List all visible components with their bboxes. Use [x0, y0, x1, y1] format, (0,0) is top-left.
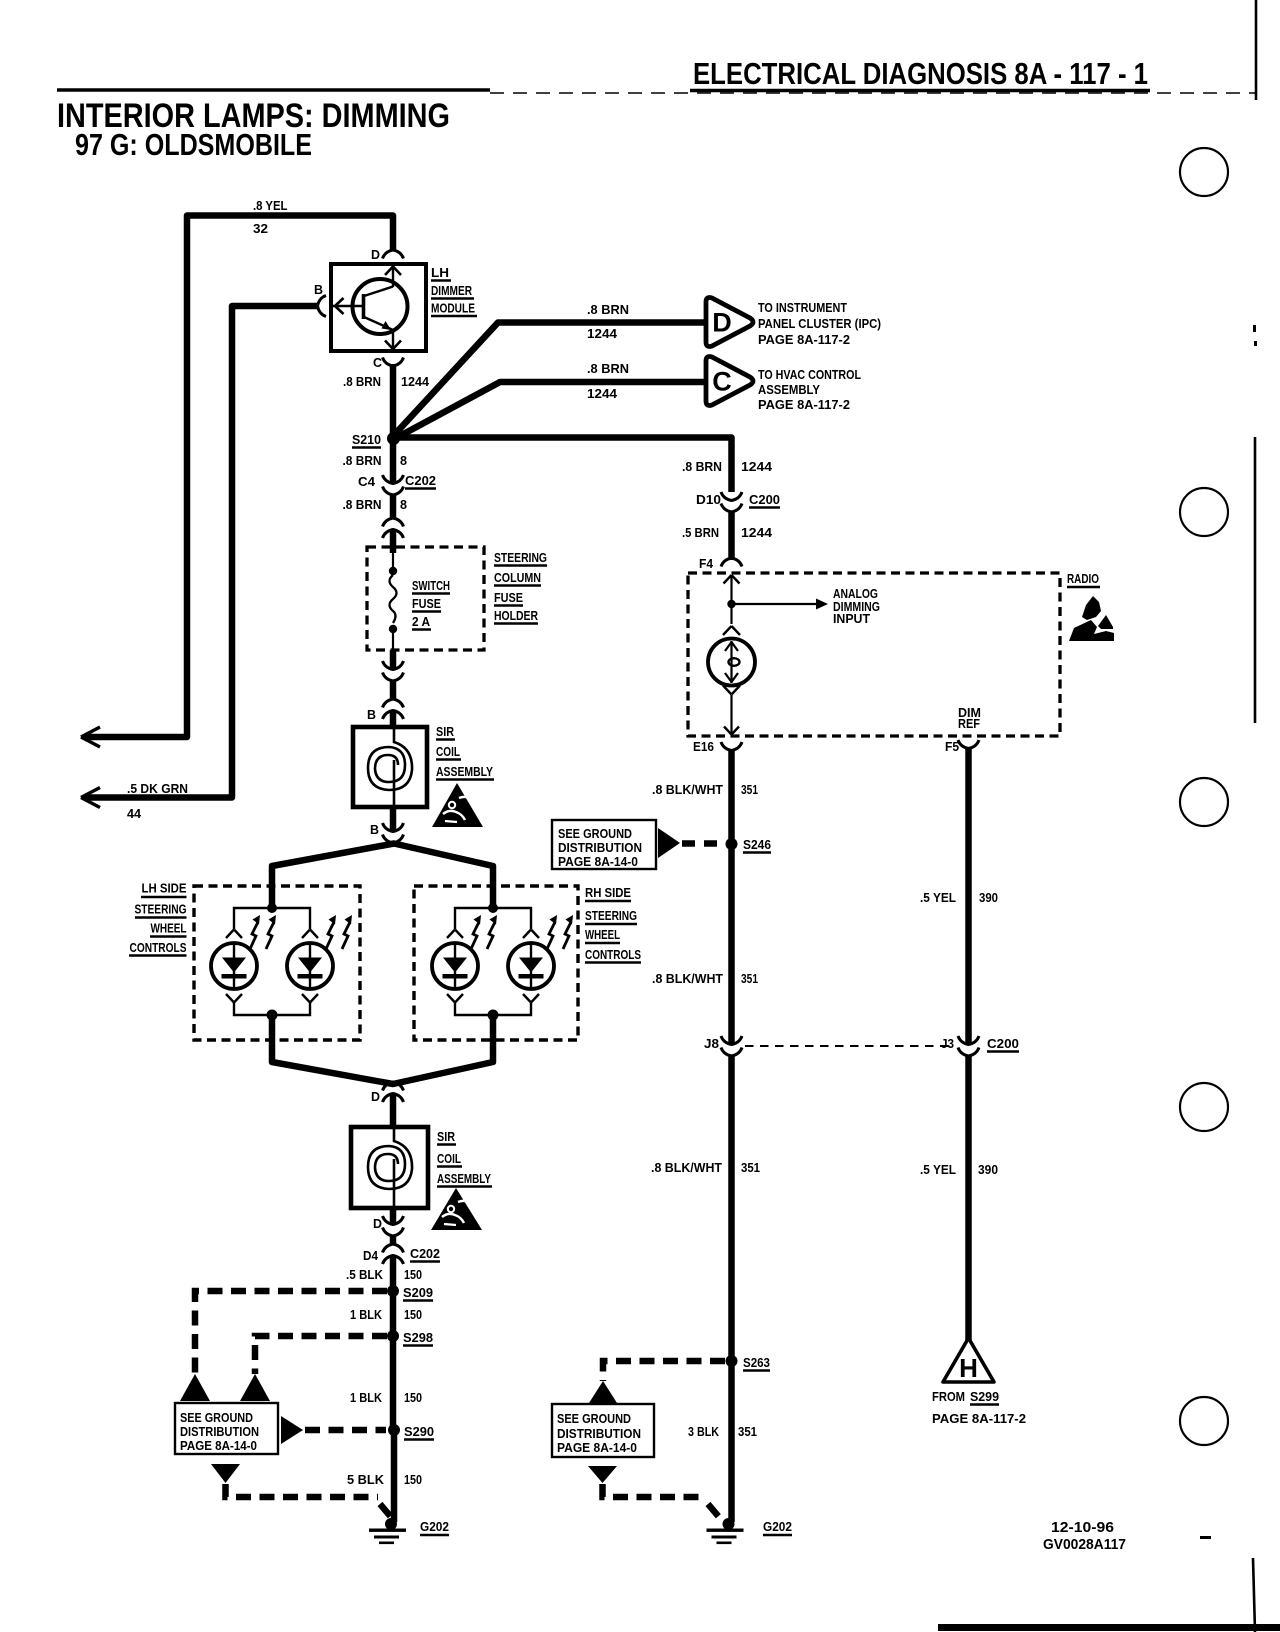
LH lamp 1 top chevron	[226, 930, 242, 939]
LH lamp 2 top chevron	[302, 930, 318, 939]
label 8 (lower)	[400, 497, 407, 512]
label .8 YEL	[253, 198, 288, 213]
RH controls top node	[488, 903, 498, 913]
svg-text:S299: S299	[970, 1389, 999, 1404]
SIR coil assembly box (upper)	[353, 727, 427, 807]
steering column fuse holder box (dashed)	[367, 547, 484, 650]
off-page connector D (to IPC)	[706, 298, 753, 347]
svg-text:D: D	[371, 1089, 380, 1104]
bottom right page edge	[938, 1536, 1280, 1631]
svg-text:S209: S209	[403, 1285, 433, 1300]
svg-text:J8: J8	[704, 1036, 719, 1051]
pin B label (SIR top)	[367, 707, 376, 722]
label .5 BRN	[682, 525, 719, 540]
label S246	[743, 837, 771, 853]
radio internal line to E16	[724, 695, 739, 735]
LH dimmer module box	[331, 264, 426, 351]
label 5 BLK	[347, 1472, 385, 1487]
wire D4 to S209 (.5 BLK 150)	[390, 1256, 397, 1291]
label RH SIDE STEERING WHEEL CONTROLS	[585, 885, 641, 963]
label 1244 (IPC wire)	[587, 326, 618, 341]
fuse holder bottom pin connector	[383, 661, 404, 681]
svg-text:TO HVAC CONTROL: TO HVAC CONTROL	[758, 368, 861, 382]
svg-text:FUSE: FUSE	[412, 596, 441, 611]
svg-text:PAGE 8A-14-0: PAGE 8A-14-0	[557, 1441, 637, 1455]
label DIM REF	[958, 705, 981, 731]
svg-text:DISTRIBUTION: DISTRIBUTION	[180, 1425, 259, 1439]
wire E16 to S246 (.8 BLK/WHT 351)	[728, 749, 735, 844]
svg-text:D: D	[712, 308, 732, 338]
LH controls bottom node	[267, 1010, 278, 1021]
wire S298 to S290 (1 BLK 150)	[390, 1336, 397, 1430]
wire J3 to H (.5 YEL 390)	[965, 1055, 972, 1340]
svg-text:S246: S246	[743, 837, 771, 852]
label 150 (3)	[404, 1390, 422, 1405]
ground G202 (right)	[707, 1518, 744, 1544]
see ground distribution box (S246)	[552, 820, 656, 869]
svg-text:3 BLK: 3 BLK	[688, 1424, 720, 1439]
label D4	[363, 1248, 379, 1263]
label FROM S299	[932, 1389, 999, 1405]
svg-text:MODULE: MODULE	[431, 301, 475, 316]
label .8 BRN (C wire)	[343, 374, 381, 389]
svg-text:D: D	[373, 1216, 382, 1231]
wire connector to SIR pin B	[390, 680, 397, 700]
RH controls top rail	[455, 908, 531, 929]
svg-text:150: 150	[404, 1472, 422, 1487]
svg-text:G202: G202	[763, 1519, 792, 1534]
transistor emitter diagonal	[364, 317, 393, 330]
fuse holder top pin connector	[383, 518, 404, 538]
label 150 (2)	[404, 1307, 422, 1322]
splice S210	[387, 432, 400, 445]
S246 splice branch (dashed)	[682, 840, 725, 847]
pin C connector (dimmer)	[383, 358, 404, 367]
diagram subtitle 97 G: OLDSMOBILE	[75, 127, 312, 162]
wire SIR1 to pin B bottom	[390, 806, 397, 832]
S209 ground arrow	[180, 1374, 210, 1401]
wire controls join to SIR pin D	[272, 1015, 493, 1084]
LH lamp 2 light arrows	[326, 915, 352, 949]
svg-text:SWITCH: SWITCH	[412, 578, 450, 593]
svg-text:D10: D10	[696, 492, 721, 507]
svg-text:C202: C202	[410, 1246, 440, 1261]
svg-text:J3: J3	[941, 1036, 954, 1051]
svg-text:1244: 1244	[741, 525, 773, 540]
label S290	[404, 1424, 434, 1440]
svg-text:.5 BLK: .5 BLK	[346, 1267, 384, 1282]
radio pin F4 connector	[721, 558, 742, 567]
wire F5 to J3 (.5 YEL 390)	[965, 748, 972, 1045]
label C202 (lower)	[410, 1246, 440, 1262]
svg-text:B: B	[367, 707, 376, 722]
S298 ground branch (dashed)	[255, 1336, 387, 1374]
label 8 (upper)	[400, 453, 407, 468]
svg-text:F4: F4	[699, 556, 714, 571]
svg-text:SEE GROUND: SEE GROUND	[558, 827, 632, 841]
transistor base bar	[362, 294, 366, 319]
punch holes	[1180, 148, 1228, 1445]
label .8 BRN (8 upper)	[343, 453, 382, 468]
svg-text:COLUMN: COLUMN	[494, 570, 541, 585]
label C4	[358, 474, 376, 489]
wire S210 to connector D (IPC)	[396, 323, 707, 434]
radio internal input line	[724, 575, 740, 601]
radio internal line to potentiometer	[730, 604, 732, 624]
RH illuminated lamp 1 (LED)	[432, 943, 478, 989]
LH lamp 2 bottom chevron	[302, 994, 318, 1003]
svg-text:.8 BRN: .8 BRN	[343, 374, 381, 389]
svg-text:351: 351	[741, 1160, 760, 1175]
RH lamp 2 bottom chevron	[523, 994, 539, 1003]
LH controls bottom rail	[234, 1002, 310, 1015]
svg-text:97 G: OLDSMOBILE: 97 G: OLDSMOBILE	[75, 127, 312, 162]
label .5 YEL (2)	[920, 1162, 998, 1177]
ground distribution arrow (S246)	[658, 828, 680, 858]
svg-text:TO INSTRUMENT: TO INSTRUMENT	[758, 301, 847, 315]
connector C202 pin D4	[383, 1244, 404, 1264]
transistor emitter lead	[385, 330, 401, 350]
label LH DIMMER MODULE	[431, 265, 477, 316]
wire C202 to fuse holder pin (.8 BRN 8)	[390, 494, 397, 519]
ground distribution arrow down (left)	[211, 1464, 240, 1483]
svg-text:150: 150	[404, 1390, 422, 1405]
label TO INSTRUMENT PANEL CLUSTER (IPC) PAGE 8A-117-2	[758, 301, 881, 347]
svg-text:DIMMER: DIMMER	[431, 283, 472, 298]
left ground distribution to G202 (dashed)	[226, 1484, 392, 1517]
pin B connector (SIR bottom)	[383, 823, 404, 843]
svg-text:1244: 1244	[401, 374, 430, 389]
LH lamp 1 bottom chevron	[226, 994, 242, 1003]
off-page connector C (to HVAC)	[706, 357, 753, 406]
label E16	[693, 739, 714, 754]
svg-text:C202: C202	[405, 473, 436, 488]
label C200 (lower)	[987, 1036, 1019, 1052]
C200 connector tie line (dashed)	[745, 1045, 955, 1047]
wire fuse holder to connector	[390, 650, 397, 670]
pin D connector (SIR2 top)	[383, 1082, 404, 1102]
pin D connector (SIR2 bottom)	[383, 1216, 404, 1236]
wire pin D to C202 pin D4	[390, 1235, 397, 1245]
svg-text:INPUT: INPUT	[833, 612, 870, 626]
RH illuminated lamp 2 (LED)	[508, 943, 554, 989]
svg-text:SEE GROUND: SEE GROUND	[557, 1412, 631, 1426]
svg-text:.8 YEL: .8 YEL	[253, 198, 288, 213]
LH illuminated lamp 1 (LED)	[211, 943, 257, 989]
pin B connector (dimmer)	[318, 296, 327, 317]
label S263	[743, 1355, 770, 1371]
svg-text:CONTROLS: CONTROLS	[130, 940, 187, 955]
svg-text:.8 BRN: .8 BRN	[587, 302, 629, 317]
wire S210 to connector C (HVAC)	[396, 382, 707, 438]
label .5 BLK	[346, 1267, 384, 1282]
svg-text:.8 BRN: .8 BRN	[587, 361, 629, 376]
ground G202 (left)	[369, 1518, 406, 1544]
transistor base lead	[333, 298, 364, 314]
label 1244 (right)	[741, 459, 773, 474]
pin D connector (dimmer)	[383, 250, 404, 259]
svg-text:C200: C200	[987, 1036, 1019, 1051]
svg-text:COIL: COIL	[436, 744, 460, 759]
S290 splice branch (dashed)	[305, 1427, 386, 1434]
off-page connector H (from S299)	[943, 1338, 994, 1383]
diagram title INTERIOR LAMPS: DIMMING	[57, 97, 450, 135]
connector C202 pin C4	[383, 475, 404, 495]
SIR coil symbol (lower)	[368, 1124, 412, 1206]
svg-text:351: 351	[741, 782, 758, 797]
svg-text:CONTROLS: CONTROLS	[585, 947, 641, 962]
label ANALOG DIMMING INPUT	[833, 587, 880, 626]
svg-text:1 BLK: 1 BLK	[350, 1390, 383, 1405]
svg-text:.5 BRN: .5 BRN	[682, 525, 719, 540]
label .8 BRN (IPC wire)	[587, 302, 629, 317]
label C202 (upper)	[405, 473, 436, 489]
see ground distribution box (right)	[552, 1404, 654, 1457]
svg-text:.5 YEL: .5 YEL	[920, 890, 956, 905]
wire J8 to S263 (.8 BLK/WHT 351)	[728, 1055, 735, 1361]
label LH SIDE STEERING WHEEL CONTROLS	[129, 881, 187, 956]
label .5 YEL (1)	[920, 890, 998, 905]
svg-text:.8 BLK/WHT: .8 BLK/WHT	[652, 782, 723, 797]
wire D10 to F4 (.5 BRN 1244)	[728, 511, 735, 560]
pin B label	[314, 282, 323, 297]
label 150 (1)	[404, 1267, 422, 1282]
plate date 12-10-96	[1051, 1519, 1114, 1536]
fuse terminal node (bottom)	[389, 625, 397, 649]
svg-text:8: 8	[400, 453, 407, 468]
svg-text:WHEEL: WHEEL	[585, 927, 620, 942]
S263 ground arrow	[589, 1381, 617, 1403]
svg-text:1244: 1244	[587, 326, 618, 341]
svg-text:B: B	[314, 282, 323, 297]
svg-text:STEERING: STEERING	[494, 550, 547, 565]
svg-text:5 BLK: 5 BLK	[347, 1472, 385, 1487]
svg-text:LH SIDE: LH SIDE	[142, 881, 187, 896]
SIR warning triangle (upper)	[432, 783, 483, 827]
radio pin E16 connector	[721, 742, 742, 751]
SIR warning triangle (lower)	[431, 1188, 482, 1230]
pin D label	[371, 247, 380, 262]
svg-text:S290: S290	[404, 1424, 434, 1439]
svg-text:.8 BLK/WHT: .8 BLK/WHT	[651, 1160, 722, 1175]
label RADIO	[1067, 571, 1100, 587]
label J8	[704, 1036, 719, 1051]
svg-text:DISTRIBUTION: DISTRIBUTION	[558, 841, 642, 855]
label C200 (upper)	[749, 492, 780, 508]
svg-text:2 A: 2 A	[412, 614, 431, 629]
fuse terminal node (top)	[389, 553, 397, 575]
label S210	[352, 432, 381, 448]
svg-text:1244: 1244	[741, 459, 773, 474]
RH controls bottom node	[488, 1010, 499, 1021]
svg-text:RH SIDE: RH SIDE	[585, 885, 631, 900]
wire splits to LH and RH controls	[272, 844, 493, 909]
svg-text:B: B	[370, 822, 379, 837]
ground distribution arrow down (right)	[588, 1466, 617, 1483]
wire S246 to J8 (.8 BLK/WHT 351)	[728, 844, 735, 1045]
transistor Q1 circle	[353, 279, 408, 334]
svg-text:DISTRIBUTION: DISTRIBUTION	[557, 1427, 641, 1441]
page header rule	[57, 90, 1256, 93]
wire S209 to S298 (1 BLK 150)	[390, 1291, 397, 1336]
svg-text:LH: LH	[431, 265, 449, 280]
wire into fuse holder	[390, 530, 397, 553]
svg-text:F5: F5	[945, 739, 959, 754]
radio dimming potentiometer	[708, 639, 755, 686]
label 1 BLK (2)	[350, 1390, 383, 1405]
svg-text:H: H	[959, 1353, 978, 1383]
label D10	[696, 492, 721, 507]
right ground distribution to G202 (dashed)	[603, 1484, 720, 1517]
wire .5 DK GRN 44 (off-page to dimmer pin B)	[84, 306, 318, 798]
svg-text:.8 BRN: .8 BRN	[343, 497, 382, 512]
svg-text:FUSE: FUSE	[494, 590, 523, 605]
label S298	[403, 1330, 433, 1346]
S209 ground branch (dashed)	[195, 1291, 387, 1374]
svg-text:SIR: SIR	[437, 1129, 456, 1144]
label SIR COIL ASSEMBLY (lower)	[437, 1129, 492, 1187]
radio box (dashed)	[688, 573, 1060, 736]
pin C label	[373, 355, 383, 370]
svg-text:PAGE 8A-117-2: PAGE 8A-117-2	[758, 333, 850, 347]
transistor collector diagonal	[364, 287, 393, 297]
svg-text:.5 YEL: .5 YEL	[920, 1162, 956, 1177]
splice S290	[388, 1424, 400, 1436]
label 1244 (C wire)	[401, 374, 430, 389]
label F5	[945, 739, 959, 754]
svg-text:REF: REF	[958, 716, 980, 731]
off-page arrow (.5 DK GRN)	[81, 788, 100, 808]
wire S263 to G202 (3 BLK 351)	[728, 1361, 735, 1522]
wire into SIR coil assembly 2	[390, 1094, 397, 1128]
svg-text:HOLDER: HOLDER	[494, 608, 538, 623]
SIR coil assembly box (lower)	[351, 1127, 428, 1208]
svg-text:STEERING: STEERING	[585, 908, 637, 923]
S263 ground branch (dashed)	[603, 1361, 725, 1381]
label .8 BRN (HVAC wire)	[587, 361, 629, 376]
label 44	[127, 806, 142, 821]
wire S210 down (.8 BRN 8)	[390, 438, 397, 484]
label .8 BLK/WHT (3)	[651, 1160, 760, 1175]
connector C200 pin J3	[958, 1036, 979, 1056]
RH steering wheel controls box (dashed)	[414, 886, 578, 1040]
pin D label (SIR2 top)	[371, 1089, 380, 1104]
LH illuminated lamp 2 (LED)	[287, 943, 333, 989]
splice S246	[726, 838, 738, 850]
svg-text:390: 390	[978, 1162, 998, 1177]
label SIR COIL ASSEMBLY (upper)	[436, 724, 494, 780]
LH lamp 1 light arrows	[250, 915, 276, 949]
svg-text:351: 351	[738, 1424, 757, 1439]
label PAGE 8A-117-2	[932, 1411, 1026, 1426]
wire into SIR coil assembly	[390, 711, 397, 728]
label .8 BLK/WHT (2)	[652, 971, 758, 986]
svg-text:C: C	[712, 367, 732, 397]
plate code GV0028A117	[1043, 1536, 1126, 1553]
svg-text:D4: D4	[363, 1248, 379, 1263]
label 1 BLK (1)	[350, 1307, 383, 1322]
LH controls top node	[267, 903, 277, 913]
splice S209	[387, 1285, 399, 1297]
RH lamp 1 bottom chevron	[447, 994, 463, 1003]
label 150 (4)	[404, 1472, 422, 1487]
transistor collector lead	[385, 266, 401, 287]
label 32	[253, 221, 268, 236]
label 1244 (radio)	[741, 525, 773, 540]
svg-text:44: 44	[127, 806, 142, 821]
analog dimming input arrow	[732, 599, 829, 610]
ground distribution arrow right (left)	[281, 1416, 303, 1444]
svg-text:PAGE 8A-117-2: PAGE 8A-117-2	[932, 1411, 1026, 1426]
svg-text:32: 32	[253, 221, 268, 236]
potentiometer bottom chevron	[723, 686, 740, 695]
RH controls bottom rail	[455, 1002, 531, 1015]
pin D label (SIR2 bottom)	[373, 1216, 382, 1231]
svg-text:PAGE 8A-14-0: PAGE 8A-14-0	[180, 1439, 257, 1453]
LH controls top rail	[234, 908, 310, 929]
svg-text:150: 150	[404, 1267, 422, 1282]
connector C200 pin D10	[721, 492, 742, 512]
svg-text:ELECTRICAL DIAGNOSIS 8A - 117: ELECTRICAL DIAGNOSIS 8A - 117 - 1	[693, 56, 1148, 91]
svg-text:GV0028A117: GV0028A117	[1043, 1536, 1126, 1553]
svg-text:C200: C200	[749, 492, 780, 507]
pin B label (SIR bottom)	[370, 822, 379, 837]
svg-text:.8 BRN: .8 BRN	[343, 453, 382, 468]
RH lamp 2 top chevron	[523, 930, 539, 939]
svg-text:C4: C4	[358, 474, 376, 489]
wire S290 to G202 (5 BLK 150)	[391, 1430, 398, 1522]
page right edge line	[1253, 0, 1257, 1632]
RH lamp 2 light arrows	[547, 915, 573, 949]
svg-text:ASSEMBLY: ASSEMBLY	[437, 1171, 491, 1186]
see ground distribution box (left)	[175, 1403, 278, 1454]
wire dimmer C to S210 (.8 BRN 1244)	[390, 364, 397, 437]
svg-text:ASSEMBLY: ASSEMBLY	[758, 383, 821, 397]
svg-text:8: 8	[400, 497, 407, 512]
wire SIR2 to pin D bottom	[390, 1207, 397, 1225]
connector C200 pin J8	[721, 1036, 742, 1056]
RH lamp 1 light arrows	[471, 915, 497, 949]
wire S210 to D10 (.8 BRN 1244)	[396, 438, 732, 493]
svg-text:C: C	[373, 355, 383, 370]
svg-text:PAGE 8A-14-0: PAGE 8A-14-0	[558, 855, 638, 869]
svg-text:S210: S210	[352, 432, 381, 447]
svg-text:PAGE 8A-117-2: PAGE 8A-117-2	[758, 398, 850, 412]
svg-text:G202: G202	[420, 1519, 449, 1534]
splice S298	[387, 1330, 399, 1342]
svg-text:SEE GROUND: SEE GROUND	[180, 1411, 253, 1425]
svg-text:1244: 1244	[587, 386, 618, 401]
svg-text:150: 150	[404, 1307, 422, 1322]
label F4	[699, 556, 714, 571]
svg-text:ASSEMBLY: ASSEMBLY	[436, 764, 493, 779]
label STEERING COLUMN FUSE HOLDER	[494, 550, 547, 624]
svg-text:D: D	[371, 247, 380, 262]
label .8 BLK/WHT (1)	[652, 782, 758, 797]
svg-text:SIR: SIR	[436, 724, 455, 739]
svg-text:.8 BRN: .8 BRN	[682, 459, 722, 474]
label S209	[403, 1285, 433, 1301]
label .8 BRN (right)	[682, 459, 722, 474]
radio analog input node	[727, 600, 735, 608]
label 3 BLK	[688, 1424, 757, 1439]
RH lamp 1 top chevron	[447, 930, 463, 939]
label G202 (left)	[420, 1519, 449, 1535]
svg-text:S298: S298	[403, 1330, 433, 1345]
label 1244 (HVAC wire)	[587, 386, 618, 401]
svg-text:ANALOG: ANALOG	[833, 587, 878, 601]
svg-text:.8 BLK/WHT: .8 BLK/WHT	[652, 971, 723, 986]
